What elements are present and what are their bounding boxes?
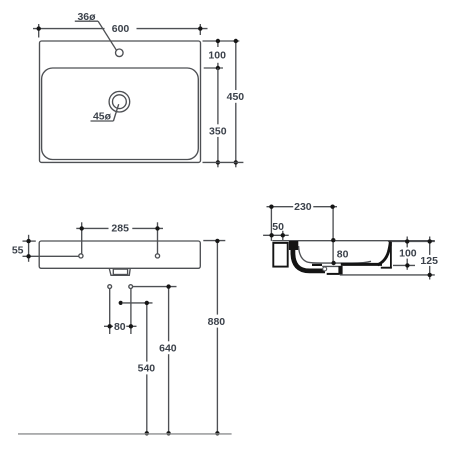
side view rim line bbox=[272, 240, 435, 242]
svg-text:80: 80 bbox=[337, 248, 349, 260]
front view body bbox=[39, 241, 200, 268]
dimension 640 bbox=[133, 284, 177, 435]
dimension 285 bbox=[76, 222, 163, 254]
svg-text:880: 880 bbox=[208, 316, 226, 328]
floor line bbox=[18, 433, 232, 435]
svg-text:350: 350 bbox=[209, 125, 227, 137]
dimension 100 plan bbox=[204, 39, 226, 70]
svg-text:600: 600 bbox=[112, 23, 130, 35]
svg-text:100: 100 bbox=[208, 50, 226, 62]
faucet hole bbox=[116, 49, 124, 57]
label 45ø bbox=[91, 104, 119, 122]
drain plug top bbox=[322, 265, 341, 267]
top edge extension line bbox=[203, 40, 240, 42]
dimension 55 bbox=[12, 235, 79, 262]
plan view basin inner edge bbox=[42, 68, 199, 160]
side view wall bracket box bbox=[273, 243, 287, 267]
dimension 350 bbox=[209, 68, 227, 167]
bottom edge extension line bbox=[203, 161, 244, 163]
supply hole right bbox=[129, 285, 133, 289]
plan view outer rim bbox=[40, 41, 201, 162]
supply hole left bbox=[108, 285, 112, 289]
svg-text:230: 230 bbox=[294, 201, 312, 213]
dimension 450 bbox=[227, 39, 245, 168]
dimension 80 front bbox=[104, 289, 137, 334]
waste leader line bbox=[123, 302, 153, 304]
svg-text:640: 640 bbox=[159, 343, 177, 355]
waste center point bbox=[119, 301, 123, 305]
dimension 80 side bbox=[331, 238, 348, 265]
svg-text:450: 450 bbox=[227, 91, 245, 103]
dimension 600 bbox=[33, 23, 208, 37]
drain inner circle bbox=[113, 95, 127, 109]
dimension 50 bbox=[263, 221, 289, 241]
svg-text:125: 125 bbox=[420, 255, 438, 267]
dimension 100 side bbox=[392, 237, 435, 270]
dimension 125 bbox=[420, 237, 438, 280]
side view right outer edge bbox=[390, 242, 392, 269]
drain recess lip bbox=[312, 264, 322, 266]
side view foot bottom edge bbox=[381, 267, 392, 269]
dimension 230 bbox=[267, 201, 338, 263]
side view bottom line bbox=[340, 274, 435, 276]
dimension 880 bbox=[203, 239, 225, 436]
drain fitting front bbox=[109, 269, 130, 276]
drain outer circle bbox=[109, 91, 130, 112]
svg-text:50: 50 bbox=[272, 221, 284, 233]
svg-text:100: 100 bbox=[399, 248, 417, 260]
front fixing hole left bbox=[79, 254, 83, 258]
side view basin inner surface bbox=[299, 246, 371, 263]
label 36ø bbox=[75, 11, 117, 50]
side view right wall tip bbox=[388, 241, 392, 246]
svg-text:540: 540 bbox=[138, 363, 156, 375]
svg-text:285: 285 bbox=[111, 222, 129, 234]
side view basin right wall bbox=[378, 242, 391, 265]
svg-text:80: 80 bbox=[114, 321, 126, 333]
svg-text:55: 55 bbox=[12, 245, 24, 257]
front fixing hole right bbox=[155, 254, 159, 258]
dimension 540 bbox=[138, 301, 156, 436]
drain plug bottom bbox=[327, 273, 340, 275]
side view basin underside right bbox=[341, 263, 382, 266]
drain plug circle bbox=[323, 267, 327, 271]
drain plug right wall bbox=[338, 266, 342, 275]
side view basin left wall bbox=[289, 241, 298, 250]
